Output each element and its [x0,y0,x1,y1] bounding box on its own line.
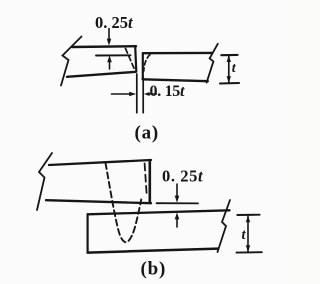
svg-text:0. 25t: 0. 25t [95,13,133,32]
svg-text:(b): (b) [141,259,167,280]
svg-text:t: t [242,227,247,243]
svg-text:0. 25t: 0. 25t [162,167,203,186]
svg-text:(a): (a) [135,123,160,144]
svg-text:0. 15t: 0. 15t [150,83,186,100]
svg-text:t: t [232,61,237,76]
